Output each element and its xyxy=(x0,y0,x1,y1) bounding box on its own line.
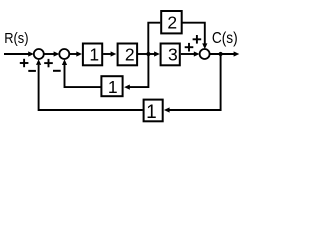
svg-text:1: 1 xyxy=(89,45,99,65)
wire arrow S2 to block G1 xyxy=(69,51,82,56)
svg-text:2: 2 xyxy=(167,13,177,33)
wire arrow G3 to summing junction S3 xyxy=(181,51,200,56)
wire G2 to node A xyxy=(138,53,148,55)
block G2 value 2 xyxy=(118,44,138,66)
wire output arrow S3 to C(s) xyxy=(210,51,240,56)
svg-text:1: 1 xyxy=(146,102,157,123)
svg-text:C(s): C(s) xyxy=(212,30,238,47)
summing junction S2 xyxy=(59,49,69,59)
summing junction S1 xyxy=(34,49,44,59)
summing junction S3 xyxy=(200,49,210,59)
wire arrow G1 to G2 xyxy=(103,51,116,56)
block G1 value 1 xyxy=(83,44,102,66)
block G3 value 3 xyxy=(161,44,180,66)
wire node A up to parallel block G4 xyxy=(148,23,160,54)
minus sign at S2 bottom input xyxy=(53,70,61,72)
plus sign at S1 left input xyxy=(20,59,29,67)
wire node B down and left into block H2 (outer feedback) xyxy=(164,54,221,113)
svg-text:3: 3 xyxy=(168,45,178,65)
wire arrow H2 output left and up into S1 bottom xyxy=(36,59,143,110)
svg-text:1: 1 xyxy=(108,77,118,97)
wire arrow S1 to S2 xyxy=(44,51,60,56)
wire arrow G4 output down into S3 top xyxy=(182,23,207,49)
block H1 value 1 (inner feedback) xyxy=(101,76,122,97)
wire node A down and left into block H1 (inner feedback) xyxy=(124,54,148,90)
plus sign at S3 top input xyxy=(193,35,202,44)
svg-text:R(s): R(s) xyxy=(4,30,28,47)
svg-text:2: 2 xyxy=(125,45,135,65)
block H2 value 1 (outer feedback) xyxy=(144,100,163,124)
plus sign at S3 left input xyxy=(185,43,194,52)
plus sign at S2 left input xyxy=(44,59,53,67)
node A junction dot xyxy=(146,52,150,56)
node B junction dot on output xyxy=(219,52,223,56)
wire arrow H1 output left and up into S2 bottom xyxy=(62,59,101,87)
wire input arrow into summing junction S1 xyxy=(4,51,34,56)
minus sign at S1 bottom input xyxy=(28,70,36,72)
block G4 value 2 (parallel feedforward) xyxy=(161,11,182,33)
wire arrow node A to block G3 xyxy=(148,51,159,56)
